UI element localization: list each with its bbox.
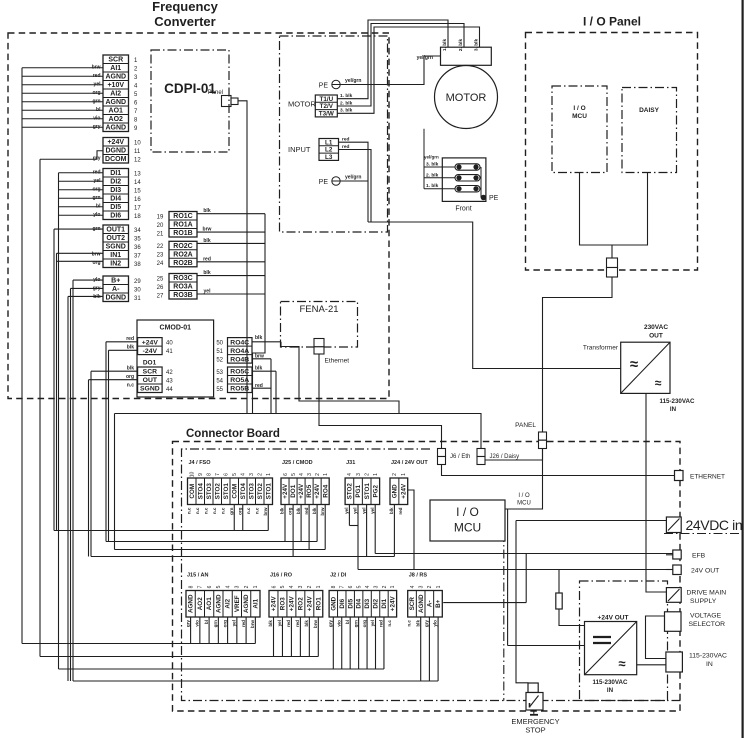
svg-text:B+: B+ <box>435 599 442 608</box>
svg-text:29: 29 <box>134 279 141 285</box>
svg-text:CMOD-01: CMOD-01 <box>160 325 192 332</box>
svg-text:4: 4 <box>365 585 371 588</box>
svg-text:DO1: DO1 <box>143 360 157 367</box>
svg-text:230VAC: 230VAC <box>644 324 668 331</box>
svg-text:STO1: STO1 <box>364 483 371 500</box>
svg-text:1: 1 <box>253 585 259 588</box>
svg-text:50: 50 <box>216 341 223 347</box>
svg-text:RO2C: RO2C <box>173 243 192 250</box>
svg-text:3. blk: 3. blk <box>474 39 480 52</box>
svg-text:115-230VAC: 115-230VAC <box>689 653 727 660</box>
svg-text:3: 3 <box>307 473 313 476</box>
svg-text:DI1: DI1 <box>110 170 121 177</box>
svg-text:n.c: n.c <box>203 507 208 514</box>
svg-text:IN1: IN1 <box>110 252 121 259</box>
svg-text:30: 30 <box>134 287 141 293</box>
svg-text:+10V: +10V <box>107 82 124 89</box>
svg-text:J2 / DI: J2 / DI <box>330 572 347 578</box>
svg-text:2: 2 <box>258 473 264 476</box>
svg-text:44: 44 <box>166 387 173 393</box>
svg-text:+24V OUT: +24V OUT <box>598 615 629 622</box>
svg-text:5: 5 <box>280 585 286 588</box>
svg-text:I / O: I / O <box>573 105 585 112</box>
svg-text:MCU: MCU <box>517 501 531 507</box>
svg-text:MOTOR: MOTOR <box>446 92 487 104</box>
svg-text:1. blk: 1. blk <box>340 93 353 99</box>
svg-text:24VDC in: 24VDC in <box>686 517 743 533</box>
svg-text:3. blk: 3. blk <box>426 162 439 168</box>
svg-text:yel: yel <box>361 508 366 514</box>
svg-text:DI1: DI1 <box>381 598 388 608</box>
svg-text:AI2: AI2 <box>225 598 232 608</box>
svg-text:L1: L1 <box>325 139 333 146</box>
svg-text:B+: B+ <box>111 278 120 285</box>
svg-text:3: 3 <box>298 585 304 588</box>
svg-text:yel/grn: yel/grn <box>417 55 433 61</box>
svg-text:10: 10 <box>190 472 196 478</box>
svg-text:43: 43 <box>166 378 173 384</box>
svg-text:-24V: -24V <box>143 348 158 355</box>
svg-text:STO1: STO1 <box>223 483 230 500</box>
svg-text:1. blk: 1. blk <box>442 39 448 52</box>
svg-text:A-: A- <box>112 286 120 293</box>
svg-text:yel: yel <box>370 620 375 626</box>
svg-text:16: 16 <box>134 197 141 203</box>
svg-text:4: 4 <box>347 473 353 476</box>
svg-text:DI3: DI3 <box>364 598 371 608</box>
svg-text:PE: PE <box>489 195 499 202</box>
svg-text:blk: blk <box>203 208 210 214</box>
svg-text:PANEL: PANEL <box>515 422 536 429</box>
svg-text:23: 23 <box>157 253 164 259</box>
svg-text:1: 1 <box>373 473 379 476</box>
svg-text:RO5B: RO5B <box>230 386 249 393</box>
svg-text:+24V: +24V <box>142 339 159 346</box>
svg-text:STO4: STO4 <box>240 483 247 500</box>
svg-text:7: 7 <box>215 473 221 476</box>
svg-text:blk: blk <box>203 270 210 276</box>
svg-text:SGND: SGND <box>106 244 126 251</box>
svg-text:n.c: n.c <box>186 507 191 514</box>
svg-text:+24V: +24V <box>390 596 397 612</box>
svg-text:RO5: RO5 <box>306 484 313 497</box>
svg-text:n.c: n.c <box>127 383 134 389</box>
svg-text:≈: ≈ <box>630 356 638 373</box>
svg-text:+24V: +24V <box>306 596 313 612</box>
svg-text:MOTOR: MOTOR <box>288 100 316 109</box>
svg-text:19: 19 <box>157 214 164 220</box>
svg-text:yel: yel <box>232 620 237 626</box>
svg-text:2. blk: 2. blk <box>426 172 439 178</box>
svg-text:T1/U: T1/U <box>319 96 333 103</box>
svg-text:T3/W: T3/W <box>319 110 334 117</box>
svg-text:DI6: DI6 <box>110 213 121 220</box>
svg-text:blk: blk <box>296 507 301 514</box>
svg-text:STO3: STO3 <box>206 483 213 500</box>
svg-text:red: red <box>241 620 246 627</box>
svg-text:bl: bl <box>345 620 350 624</box>
svg-text:red: red <box>379 620 384 627</box>
svg-text:AGND: AGND <box>188 594 195 613</box>
svg-text:RO4C: RO4C <box>230 339 249 346</box>
svg-text:RO4: RO4 <box>322 484 329 497</box>
svg-text:13: 13 <box>134 171 141 177</box>
svg-text:STO2: STO2 <box>257 483 264 500</box>
svg-text:AGND: AGND <box>105 99 126 106</box>
svg-text:VREF: VREF <box>234 595 241 612</box>
svg-text:DI5: DI5 <box>110 204 121 211</box>
svg-text:24: 24 <box>157 261 164 267</box>
svg-text:2: 2 <box>427 585 433 588</box>
svg-text:1: 1 <box>390 585 396 588</box>
svg-text:PE: PE <box>319 179 329 186</box>
svg-text:yel: yel <box>277 620 282 626</box>
svg-text:blk: blk <box>312 507 317 514</box>
svg-text:L3: L3 <box>325 154 333 161</box>
svg-text:OUT1: OUT1 <box>106 227 125 234</box>
svg-text:Front: Front <box>455 206 471 213</box>
svg-text:MCU: MCU <box>454 521 481 535</box>
svg-text:blk: blk <box>255 335 262 341</box>
svg-text:Transformer: Transformer <box>583 345 619 352</box>
svg-text:INPUT: INPUT <box>288 145 311 154</box>
svg-text:Ethernet: Ethernet <box>325 358 350 365</box>
svg-text:SUPPLY: SUPPLY <box>690 598 717 605</box>
svg-text:DGND: DGND <box>105 148 126 155</box>
svg-text:IN2: IN2 <box>110 261 121 268</box>
svg-text:2: 2 <box>315 473 321 476</box>
svg-text:5: 5 <box>216 585 222 588</box>
svg-text:blk: blk <box>280 507 285 514</box>
svg-text:9: 9 <box>198 473 204 476</box>
svg-text:AI1: AI1 <box>252 598 259 608</box>
svg-text:J31: J31 <box>346 460 355 466</box>
svg-text:54: 54 <box>216 378 223 384</box>
svg-text:55: 55 <box>216 387 223 393</box>
svg-text:J24 / 24V OUT: J24 / 24V OUT <box>391 460 428 466</box>
svg-text:I / O: I / O <box>456 505 479 519</box>
svg-text:DI5: DI5 <box>347 598 354 608</box>
svg-text:Converter: Converter <box>154 14 215 29</box>
svg-text:1: 1 <box>323 473 329 476</box>
svg-text:20: 20 <box>157 223 164 229</box>
svg-text:RO3A: RO3A <box>173 284 192 291</box>
svg-text:brw: brw <box>203 227 212 233</box>
svg-text:7: 7 <box>340 585 346 588</box>
svg-text:52: 52 <box>216 358 223 364</box>
svg-text:51: 51 <box>216 349 223 355</box>
svg-text:org: org <box>362 620 367 628</box>
svg-text:RO2: RO2 <box>297 597 304 610</box>
svg-text:2: 2 <box>382 585 388 588</box>
svg-text:gry: gry <box>424 620 429 628</box>
svg-text:brw: brw <box>313 620 318 629</box>
svg-text:RO2A: RO2A <box>173 252 192 259</box>
svg-text:3: 3 <box>373 585 379 588</box>
svg-text:RO2B: RO2B <box>173 260 192 267</box>
svg-text:AGND: AGND <box>105 125 126 132</box>
svg-text:27: 27 <box>157 293 164 299</box>
svg-text:Panel: Panel <box>208 90 223 96</box>
svg-text:34: 34 <box>134 228 141 234</box>
svg-text:blk: blk <box>268 620 273 627</box>
svg-text:21: 21 <box>157 231 164 237</box>
svg-text:yel: yel <box>344 508 349 514</box>
svg-text:COM: COM <box>231 484 238 499</box>
svg-text:RO3: RO3 <box>280 597 287 610</box>
svg-text:AI2: AI2 <box>110 91 121 98</box>
svg-text:AGND: AGND <box>418 594 425 613</box>
svg-text:41: 41 <box>166 349 173 355</box>
svg-text:+24V: +24V <box>107 139 124 146</box>
svg-text:I / O: I / O <box>518 493 530 499</box>
svg-text:2. blk: 2. blk <box>340 100 353 106</box>
svg-text:J4 / FSO: J4 / FSO <box>189 460 212 466</box>
svg-text:ylo: ylo <box>433 620 438 627</box>
svg-text:RO1C: RO1C <box>173 213 192 220</box>
svg-text:6: 6 <box>348 585 354 588</box>
svg-text:DI6: DI6 <box>339 598 346 608</box>
svg-text:SELECTOR: SELECTOR <box>689 621 726 628</box>
svg-text:DI2: DI2 <box>373 598 380 608</box>
svg-text:grn: grn <box>353 620 358 628</box>
svg-text:115-230VAC: 115-230VAC <box>660 398 696 405</box>
svg-text:2: 2 <box>364 473 370 476</box>
svg-text:red: red <box>203 256 211 262</box>
svg-text:115-230VAC: 115-230VAC <box>593 679 629 686</box>
svg-text:53: 53 <box>216 370 223 376</box>
svg-text:GND: GND <box>392 484 399 498</box>
svg-text:org: org <box>288 507 293 515</box>
svg-text:STO2: STO2 <box>347 483 354 500</box>
svg-text:bl: bl <box>204 620 209 624</box>
svg-text:IN: IN <box>607 687 614 694</box>
svg-text:5: 5 <box>232 473 238 476</box>
svg-text:J6 / Eth: J6 / Eth <box>450 454 470 460</box>
svg-text:OUT2: OUT2 <box>106 235 125 242</box>
svg-text:11: 11 <box>134 149 141 155</box>
svg-text:14: 14 <box>134 180 141 186</box>
svg-text:yel: yel <box>204 289 212 295</box>
svg-text:PE: PE <box>319 83 329 90</box>
svg-text:J15 / AN: J15 / AN <box>187 572 209 578</box>
svg-text:I / O Panel: I / O Panel <box>583 15 641 29</box>
svg-text:+24V: +24V <box>271 596 278 612</box>
svg-text:+24V: +24V <box>314 483 321 499</box>
svg-text:DO1: DO1 <box>290 484 297 497</box>
svg-text:OUT: OUT <box>143 377 158 384</box>
svg-text:15: 15 <box>134 188 141 194</box>
svg-text:brw: brw <box>250 620 255 629</box>
svg-text:ETHERNET: ETHERNET <box>690 474 725 481</box>
svg-text:EFB: EFB <box>692 553 706 560</box>
svg-text:RO5C: RO5C <box>230 369 249 376</box>
svg-text:org: org <box>237 507 242 515</box>
svg-text:org: org <box>222 620 227 628</box>
svg-text:1: 1 <box>316 585 322 588</box>
svg-text:18: 18 <box>134 214 141 220</box>
svg-text:8: 8 <box>188 585 194 588</box>
svg-text:IN: IN <box>670 406 677 413</box>
svg-text:RO4A: RO4A <box>230 348 249 355</box>
svg-text:8: 8 <box>331 585 337 588</box>
svg-text:J16 / RO: J16 / RO <box>270 572 293 578</box>
svg-text:4: 4 <box>410 585 416 588</box>
svg-text:5: 5 <box>291 473 297 476</box>
svg-text:1: 1 <box>401 473 407 476</box>
svg-text:≈: ≈ <box>618 656 625 671</box>
svg-text:RO5A: RO5A <box>230 377 249 384</box>
svg-text:IN: IN <box>706 661 713 668</box>
svg-text:MCU: MCU <box>572 113 587 120</box>
svg-text:T2/V: T2/V <box>320 103 334 110</box>
svg-text:RO1B: RO1B <box>173 230 192 237</box>
svg-text:blk: blk <box>255 366 262 372</box>
svg-text:40: 40 <box>166 341 173 347</box>
svg-text:2: 2 <box>307 585 313 588</box>
svg-text:blk: blk <box>203 238 210 244</box>
svg-text:red: red <box>398 507 403 514</box>
svg-text:yel/grn: yel/grn <box>345 78 361 84</box>
svg-text:1: 1 <box>266 473 272 476</box>
svg-text:L2: L2 <box>325 147 333 154</box>
svg-text:+24V: +24V <box>400 483 407 499</box>
svg-text:red: red <box>304 507 309 514</box>
svg-text:OUT: OUT <box>649 333 663 340</box>
svg-text:4: 4 <box>299 473 305 476</box>
svg-text:42: 42 <box>166 370 173 376</box>
svg-text:3: 3 <box>249 473 255 476</box>
svg-text:n.c: n.c <box>246 507 251 514</box>
svg-text:SCR: SCR <box>108 57 123 64</box>
svg-text:vio: vio <box>336 620 341 627</box>
svg-text:red: red <box>295 620 300 627</box>
svg-text:DI4: DI4 <box>110 196 121 203</box>
svg-text:STO1: STO1 <box>265 483 272 500</box>
svg-text:grn: grn <box>229 507 234 515</box>
svg-text:25: 25 <box>157 276 164 282</box>
svg-text:DI3: DI3 <box>110 187 121 194</box>
svg-text:RO4B: RO4B <box>230 356 249 363</box>
svg-text:4: 4 <box>241 473 247 476</box>
svg-text:yel/grn: yel/grn <box>424 155 439 160</box>
svg-text:PG2: PG2 <box>372 484 379 497</box>
svg-text:SCR: SCR <box>409 597 416 611</box>
svg-text:2: 2 <box>392 473 398 476</box>
svg-text:STO3: STO3 <box>248 483 255 500</box>
svg-text:FENA-21: FENA-21 <box>299 304 338 315</box>
svg-text:AO2: AO2 <box>197 597 204 610</box>
svg-text:+24V: +24V <box>282 483 289 499</box>
svg-text:Frequency: Frequency <box>152 0 219 14</box>
svg-text:blk: blk <box>415 620 420 627</box>
svg-text:2. blk: 2. blk <box>458 39 464 52</box>
svg-text:37: 37 <box>134 253 141 259</box>
svg-text:12: 12 <box>134 157 141 163</box>
svg-text:n.c: n.c <box>212 507 217 514</box>
svg-text:17: 17 <box>134 205 141 211</box>
svg-text:7: 7 <box>198 585 204 588</box>
svg-text:A-: A- <box>426 600 433 607</box>
svg-text:6: 6 <box>207 585 213 588</box>
svg-text:DAISY: DAISY <box>639 107 660 114</box>
svg-text:GND: GND <box>330 596 337 610</box>
svg-text:26: 26 <box>157 285 164 291</box>
svg-text:38: 38 <box>134 262 141 268</box>
svg-text:31: 31 <box>134 296 141 302</box>
svg-text:3: 3 <box>235 585 241 588</box>
svg-text:blk: blk <box>304 620 309 627</box>
svg-text:yel: yel <box>353 508 358 514</box>
svg-text:RO3B: RO3B <box>173 292 192 299</box>
svg-text:AO2: AO2 <box>109 116 124 123</box>
svg-text:red: red <box>286 620 291 627</box>
svg-text:6: 6 <box>224 473 230 476</box>
svg-text:STOP: STOP <box>525 726 545 735</box>
svg-text:22: 22 <box>157 244 164 250</box>
svg-text:gry: gry <box>185 620 190 628</box>
svg-text:1. blk: 1. blk <box>426 183 439 189</box>
svg-text:COM: COM <box>189 484 196 499</box>
svg-text:3: 3 <box>418 585 424 588</box>
svg-text:vio: vio <box>195 620 200 627</box>
svg-text:n.c: n.c <box>407 620 412 627</box>
svg-text:STO2: STO2 <box>214 483 221 500</box>
svg-text:SCR: SCR <box>143 369 157 376</box>
svg-text:6: 6 <box>283 473 289 476</box>
svg-text:brw: brw <box>263 507 268 516</box>
svg-text:STO4: STO4 <box>197 483 204 500</box>
svg-text:AO1: AO1 <box>206 597 213 610</box>
svg-text:Connector Board: Connector Board <box>186 428 280 440</box>
svg-text:SGND: SGND <box>140 386 160 393</box>
svg-text:blk: blk <box>93 294 100 300</box>
svg-text:AGND: AGND <box>215 594 222 613</box>
svg-text:yel: yel <box>370 508 375 514</box>
svg-text:RO1A: RO1A <box>173 222 192 229</box>
svg-text:n.c: n.c <box>254 507 259 514</box>
svg-text:DI4: DI4 <box>356 598 363 608</box>
svg-text:3. blk: 3. blk <box>340 108 353 114</box>
svg-text:AGND: AGND <box>105 74 126 81</box>
svg-text:VOLTAGE: VOLTAGE <box>690 613 722 620</box>
svg-text:grn: grn <box>213 620 218 628</box>
svg-text:2: 2 <box>244 585 250 588</box>
svg-text:4: 4 <box>289 585 295 588</box>
svg-text:≈: ≈ <box>655 376 662 390</box>
svg-text:DCOM: DCOM <box>105 156 127 163</box>
svg-text:PG1: PG1 <box>355 484 362 497</box>
svg-text:RO1: RO1 <box>315 597 322 610</box>
svg-text:brw: brw <box>320 507 325 516</box>
svg-text:DRIVE MAIN: DRIVE MAIN <box>687 590 727 597</box>
svg-text:3: 3 <box>356 473 362 476</box>
svg-text:1: 1 <box>436 585 442 588</box>
svg-text:+24V: +24V <box>298 483 305 499</box>
svg-text:AGND: AGND <box>243 594 250 613</box>
svg-text:AI1: AI1 <box>110 65 121 72</box>
svg-text:red: red <box>342 144 350 150</box>
svg-text:J8 / RS: J8 / RS <box>409 572 428 578</box>
svg-text:brw: brw <box>92 252 101 258</box>
svg-text:gry: gry <box>328 620 333 628</box>
svg-text:DGND: DGND <box>105 295 126 302</box>
svg-text:J26 / Daisy: J26 / Daisy <box>490 454 520 460</box>
svg-text:+24V: +24V <box>289 596 296 612</box>
svg-text:10: 10 <box>134 140 141 146</box>
svg-text:n.c: n.c <box>195 507 200 514</box>
svg-text:5: 5 <box>356 585 362 588</box>
